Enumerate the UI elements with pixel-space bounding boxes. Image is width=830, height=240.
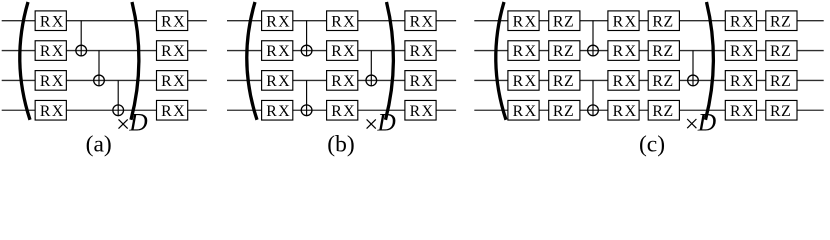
svg-text:RX: RX (266, 43, 291, 60)
svg-text:RX: RX (266, 73, 291, 90)
svg-text:RX: RX (730, 43, 755, 60)
svg-text:RX: RX (331, 73, 356, 90)
svg-text:RX: RX (40, 73, 65, 90)
svg-text:RX: RX (410, 13, 435, 30)
svg-text:RX: RX (161, 103, 186, 120)
svg-text:RX: RX (161, 73, 186, 90)
svg-text:RZ: RZ (652, 73, 673, 90)
svg-text:RZ: RZ (770, 73, 791, 90)
svg-text:(c): (c) (639, 131, 665, 157)
svg-text:RX: RX (331, 13, 356, 30)
svg-text:RX: RX (410, 43, 435, 60)
svg-text:RZ: RZ (770, 103, 791, 120)
svg-text:(a): (a) (86, 131, 112, 157)
svg-text:(b): (b) (327, 131, 354, 157)
svg-text:RX: RX (410, 103, 435, 120)
svg-text:RZ: RZ (553, 13, 574, 30)
svg-text:RZ: RZ (770, 13, 791, 30)
svg-text:D: D (128, 108, 148, 137)
svg-text:RZ: RZ (652, 13, 673, 30)
svg-text:RX: RX (266, 13, 291, 30)
svg-text:RX: RX (730, 103, 755, 120)
svg-text:RX: RX (331, 43, 356, 60)
svg-text:RX: RX (613, 13, 638, 30)
svg-text:RZ: RZ (770, 43, 791, 60)
svg-text:RZ: RZ (652, 103, 673, 120)
svg-text:RX: RX (613, 43, 638, 60)
svg-text:RZ: RZ (652, 43, 673, 60)
svg-text:RX: RX (513, 73, 538, 90)
svg-text:RX: RX (613, 73, 638, 90)
svg-text:RX: RX (40, 103, 65, 120)
svg-text:RX: RX (513, 13, 538, 30)
svg-text:RZ: RZ (553, 103, 574, 120)
svg-text:RX: RX (513, 43, 538, 60)
svg-text:RX: RX (266, 103, 291, 120)
svg-text:RX: RX (331, 103, 356, 120)
svg-text:D: D (697, 108, 717, 137)
svg-text:RX: RX (513, 103, 538, 120)
svg-text:RX: RX (40, 43, 65, 60)
svg-text:RX: RX (161, 13, 186, 30)
svg-text:RX: RX (730, 13, 755, 30)
svg-text:RZ: RZ (553, 43, 574, 60)
svg-text:RZ: RZ (553, 73, 574, 90)
svg-text:RX: RX (613, 103, 638, 120)
svg-text:D: D (376, 108, 396, 137)
svg-text:RX: RX (161, 43, 186, 60)
svg-text:RX: RX (730, 73, 755, 90)
svg-text:RX: RX (410, 73, 435, 90)
svg-text:RX: RX (40, 13, 65, 30)
